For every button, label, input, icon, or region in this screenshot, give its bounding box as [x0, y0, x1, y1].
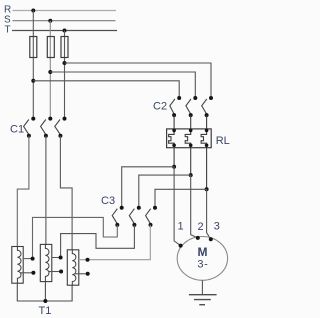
svg-text:3-: 3-: [197, 258, 208, 270]
svg-text:T: T: [5, 24, 11, 35]
svg-text:C3: C3: [101, 195, 115, 207]
svg-text:M: M: [198, 245, 208, 259]
svg-text:RL: RL: [216, 135, 230, 147]
svg-text:C1: C1: [10, 123, 24, 135]
svg-text:3: 3: [214, 220, 220, 232]
svg-text:T1: T1: [39, 305, 52, 317]
svg-text:C2: C2: [153, 101, 167, 113]
svg-text:1: 1: [178, 220, 184, 232]
svg-text:2: 2: [198, 221, 204, 233]
